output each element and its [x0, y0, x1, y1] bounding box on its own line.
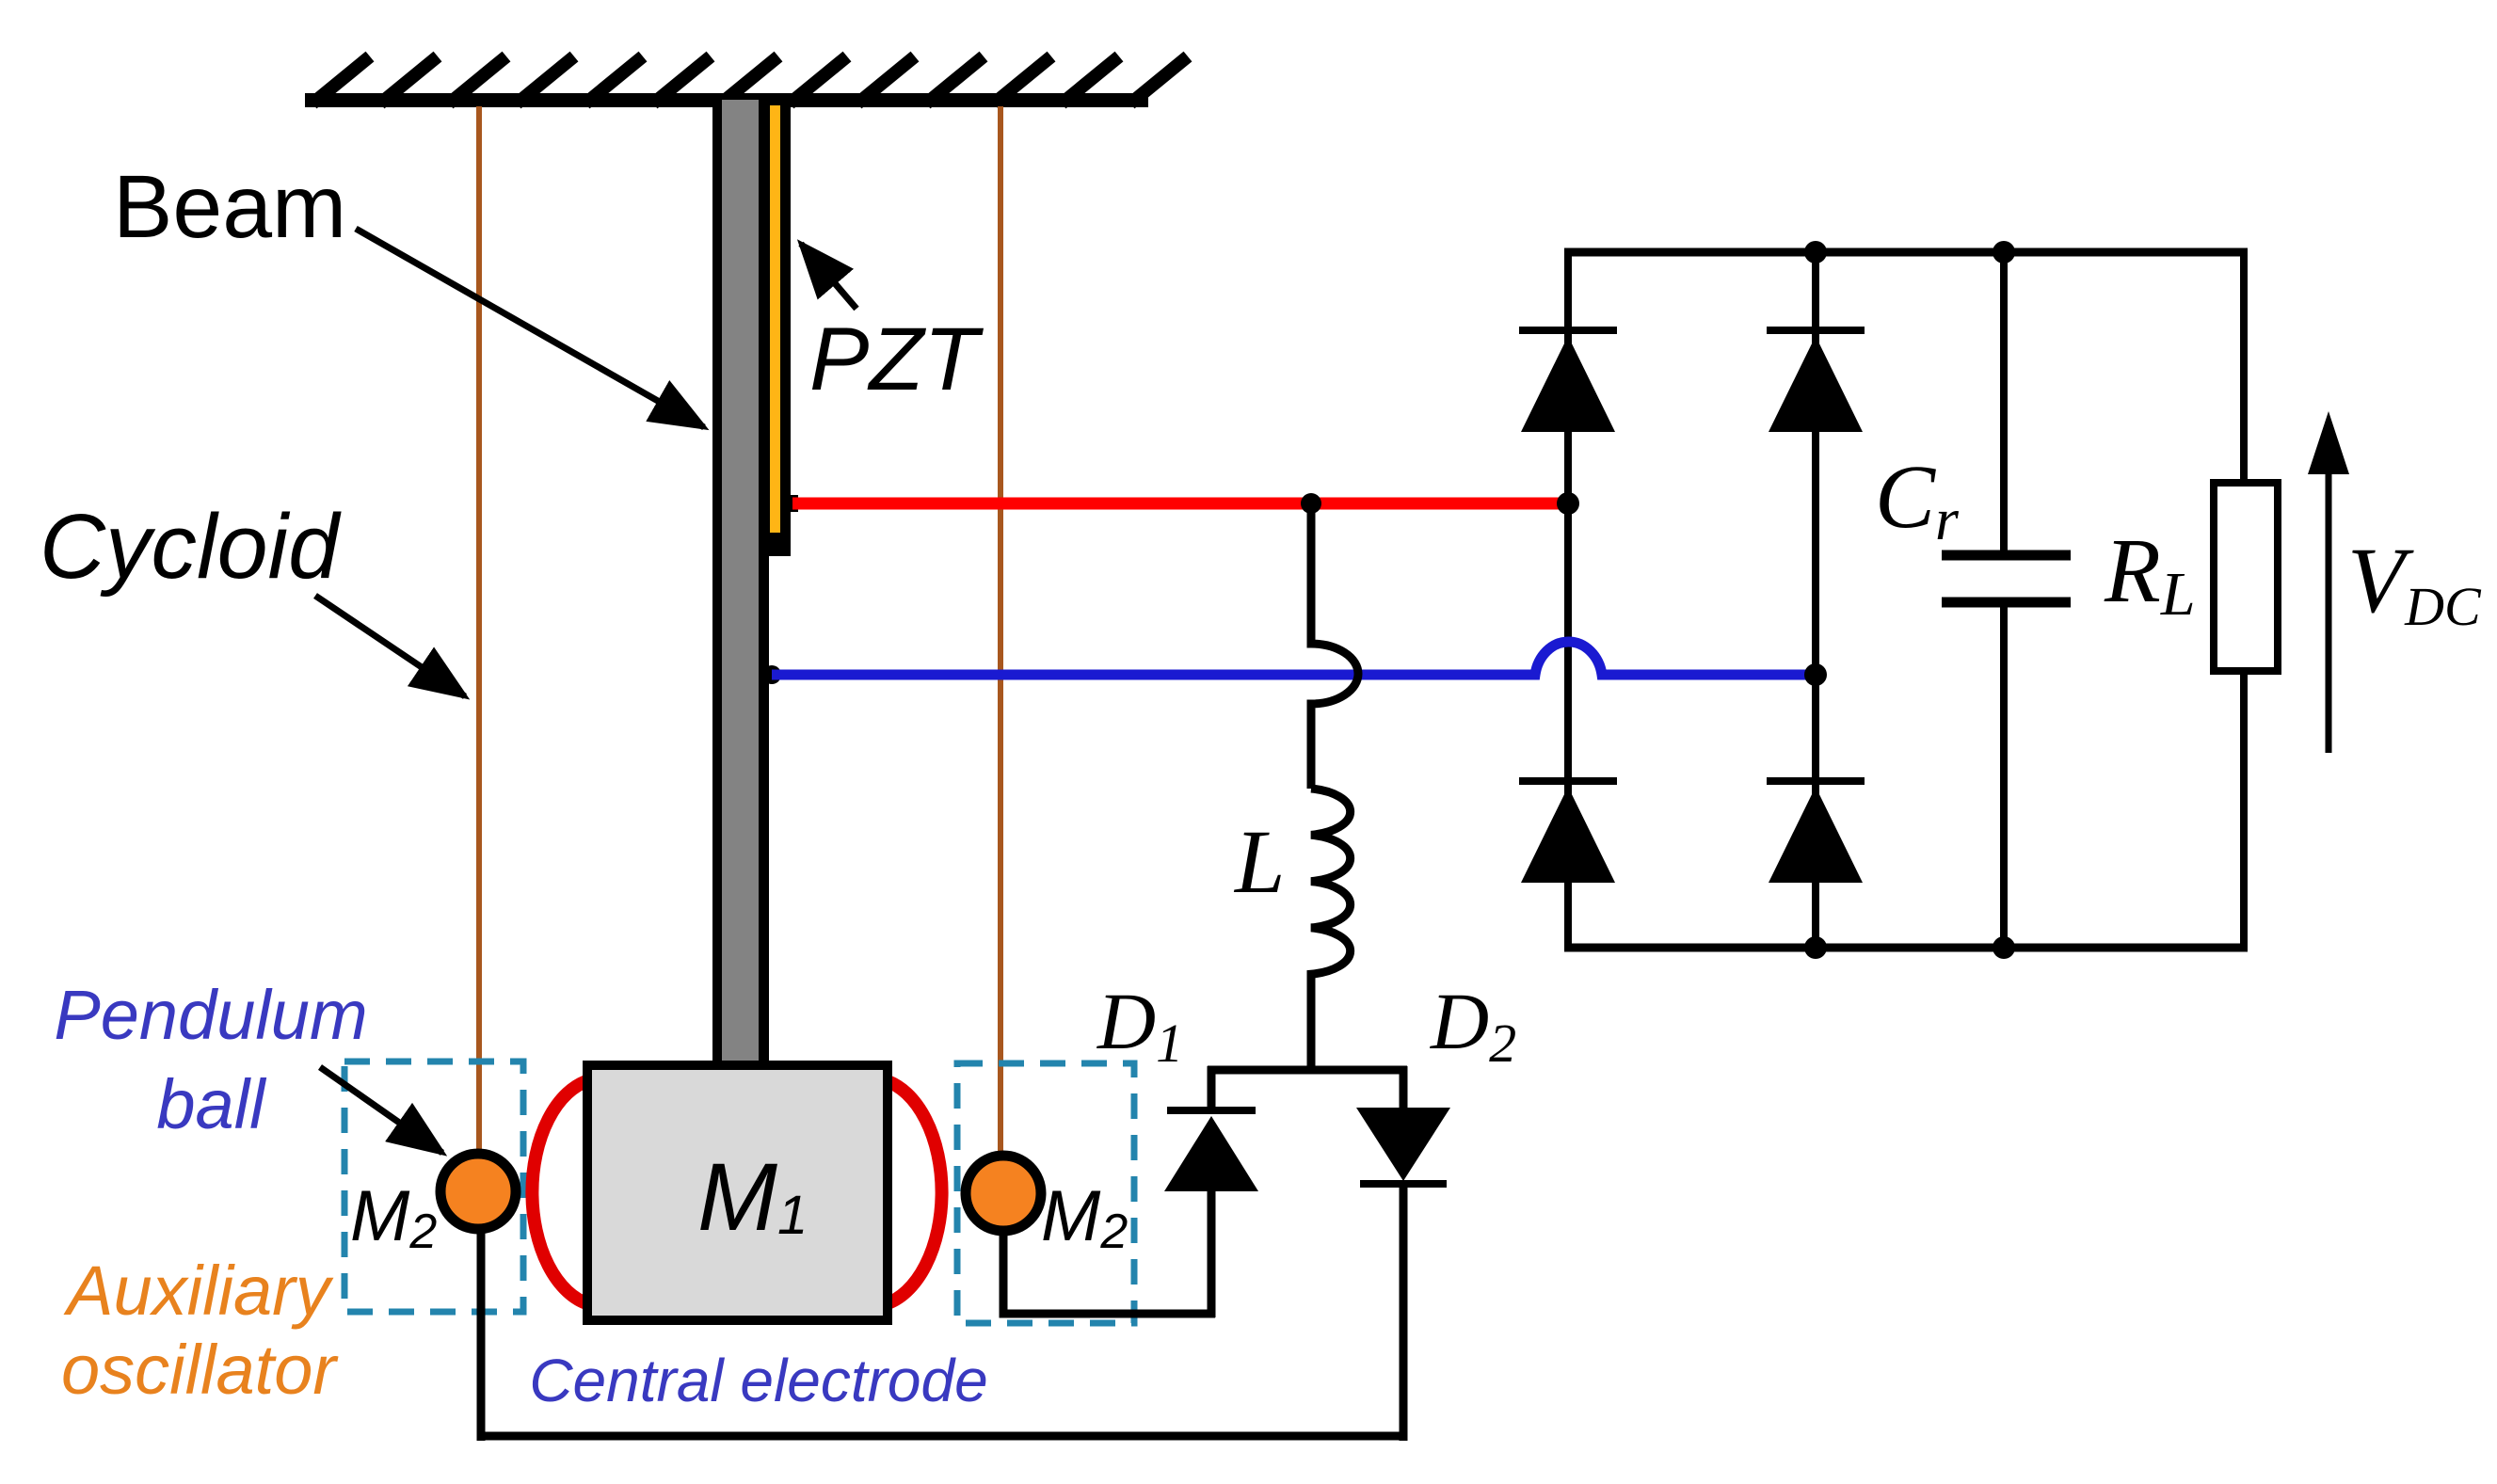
- inductor branch wire with crossover hop: [1311, 503, 1358, 789]
- bridge diode top-right: [1767, 330, 1865, 432]
- auxiliary oscillator dashed box left: [344, 1061, 523, 1312]
- svg-text:D2: D2: [1430, 976, 1516, 1074]
- T junction wire to D1 and D2: [1208, 1066, 1407, 1075]
- blue wire from beam to bridge with hop: [762, 665, 781, 684]
- wire from left pendulum ball down to bottom return: [477, 1214, 486, 1441]
- svg-text:L: L: [1233, 811, 1285, 912]
- svg-text:oscillator: oscillator: [61, 1331, 339, 1409]
- ceiling hatch marks: [312, 56, 1188, 104]
- bottom return wire from D2 to left ball: [477, 1432, 1407, 1441]
- cycloid string right: [998, 106, 1003, 1167]
- svg-text:Auxiliary: Auxiliary: [63, 1252, 334, 1330]
- red contact arc left: [532, 1080, 589, 1304]
- diode D1: [1164, 1066, 1258, 1317]
- beam (cantilever): [712, 100, 769, 1071]
- resistor RL branch bottom wire: [2240, 671, 2248, 951]
- bridge bottom rail: [1564, 944, 2248, 952]
- inductor L coil: [1311, 789, 1351, 1074]
- wire from right pendulum ball down to D1: [1003, 1214, 1215, 1314]
- svg-text:Central electrode: Central electrode: [529, 1347, 987, 1414]
- arrow from Cycloid label to string: [315, 596, 465, 696]
- svg-text:Pendulum: Pendulum: [54, 976, 367, 1054]
- VDC arrow: [2308, 411, 2349, 753]
- junction node top rail at second branch: [1804, 241, 1827, 263]
- arrow from Pendulum ball label to left ball: [320, 1067, 442, 1153]
- arrow from PZT label to strip: [801, 244, 856, 309]
- resistor RL body: [2214, 483, 2278, 671]
- auxiliary oscillator dashed box right: [957, 1063, 1134, 1323]
- red contact arc right: [885, 1080, 942, 1304]
- bridge diode bottom-left: [1519, 781, 1617, 883]
- bridge left branch wire: [1564, 248, 1572, 948]
- bridge second branch wire: [1812, 248, 1819, 948]
- red wire from PZT to bridge: [781, 495, 798, 512]
- svg-text:M2: M2: [1041, 1176, 1128, 1259]
- svg-text:ball: ball: [156, 1065, 267, 1143]
- ceiling fixed support bar: [305, 93, 1148, 107]
- svg-text:M2: M2: [350, 1176, 437, 1259]
- mass M1: [587, 1065, 888, 1320]
- node on red wire at inductor branch: [1301, 493, 1321, 514]
- node on red wire at bridge input: [1557, 492, 1579, 515]
- svg-text:Cycloid: Cycloid: [40, 495, 342, 598]
- junction node bottom rail at second branch: [1804, 936, 1827, 959]
- junction node bottom rail at capacitor: [1993, 936, 2015, 959]
- resistor RL branch top wire: [2240, 248, 2248, 487]
- svg-text:VDC: VDC: [2347, 528, 2482, 637]
- capacitor Cr plates: [1942, 551, 2071, 561]
- junction node top rail at capacitor: [1993, 241, 2015, 263]
- pendulum ball right: [966, 1156, 1041, 1231]
- capacitor Cr branch top wire: [2000, 248, 2008, 555]
- arrow from Beam label to beam: [356, 229, 704, 427]
- diode D2: [1356, 1066, 1450, 1441]
- PZT strip: [767, 100, 791, 556]
- pendulum ball left: [440, 1154, 516, 1229]
- svg-text:PZT: PZT: [809, 310, 984, 409]
- capacitor Cr branch bottom wire: [2000, 602, 2008, 951]
- svg-text:RL: RL: [2104, 520, 2196, 629]
- svg-text:D1: D1: [1096, 976, 1183, 1074]
- bridge diode bottom-right: [1767, 781, 1865, 883]
- cycloid string left: [476, 106, 482, 1167]
- bridge top rail: [1564, 248, 2248, 257]
- svg-text:Beam: Beam: [113, 157, 346, 257]
- node on blue wire at bridge second branch: [1804, 663, 1827, 686]
- bridge diode top-left: [1519, 330, 1617, 432]
- svg-text:Cr: Cr: [1875, 446, 1960, 552]
